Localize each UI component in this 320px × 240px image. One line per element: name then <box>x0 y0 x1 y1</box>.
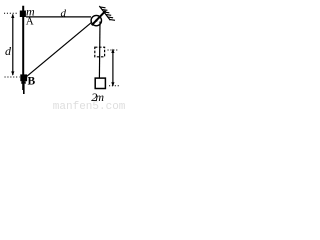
svg-text:2m: 2m <box>91 90 104 104</box>
svg-text:A: A <box>26 16 34 28</box>
svg-text:B: B <box>28 76 36 88</box>
svg-text:d: d <box>5 44 12 58</box>
svg-text:manfen5.com: manfen5.com <box>53 101 126 110</box>
svg-text:d: d <box>61 8 67 20</box>
